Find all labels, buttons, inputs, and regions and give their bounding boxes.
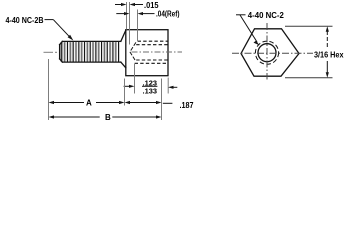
svg-text:.04(Ref): .04(Ref) xyxy=(156,10,180,19)
svg-text:.133: .133 xyxy=(143,87,158,96)
dimension A xyxy=(49,99,125,108)
thread crest hatching xyxy=(60,42,121,62)
dimension .187 xyxy=(125,101,194,110)
extension line for .123 left xyxy=(134,64,136,94)
hex end view outline xyxy=(241,29,299,76)
svg-text:.015: .015 xyxy=(144,1,159,10)
dimension .04(Ref) xyxy=(116,10,179,19)
dimension .015 xyxy=(115,1,159,10)
left view axis centerline stub xyxy=(44,51,58,53)
svg-text:B: B xyxy=(105,113,111,122)
label 4-40 NC-2 xyxy=(236,11,284,46)
extension line E2 xyxy=(129,2,131,45)
tapped hole hidden lines xyxy=(135,41,168,63)
end view horizontal centerline xyxy=(232,52,313,54)
extension line left end (A/B) xyxy=(48,59,50,120)
svg-text:3/16 Hex: 3/16 Hex xyxy=(314,51,344,60)
tapped hole inner circle xyxy=(258,44,276,62)
svg-text:A: A xyxy=(86,99,92,108)
extension line E1 (head face) xyxy=(126,2,128,30)
tapped hole outer (thread major) dashed circle xyxy=(255,41,278,64)
threaded stud outline xyxy=(60,41,121,62)
extension line at B right xyxy=(161,79,163,121)
label 4-40 NC-2B xyxy=(6,16,74,41)
dimension .123/.133 xyxy=(124,78,178,95)
hex body side view xyxy=(126,30,168,76)
end view vertical centerline xyxy=(266,23,268,80)
extension line E3 xyxy=(137,10,139,42)
dimension 3/16 Hex xyxy=(285,26,344,78)
svg-text:.187: .187 xyxy=(180,101,194,110)
drill point chamfer xyxy=(130,42,136,61)
extension line for .123 right (face extended) xyxy=(167,78,169,94)
svg-text:4-40 NC-2: 4-40 NC-2 xyxy=(248,11,285,20)
svg-text:4-40 NC-2B: 4-40 NC-2B xyxy=(6,16,44,25)
shoulder transition xyxy=(121,30,126,68)
head axis centerline xyxy=(132,51,183,53)
extension line at A right xyxy=(124,79,126,106)
dimension B xyxy=(49,113,162,122)
